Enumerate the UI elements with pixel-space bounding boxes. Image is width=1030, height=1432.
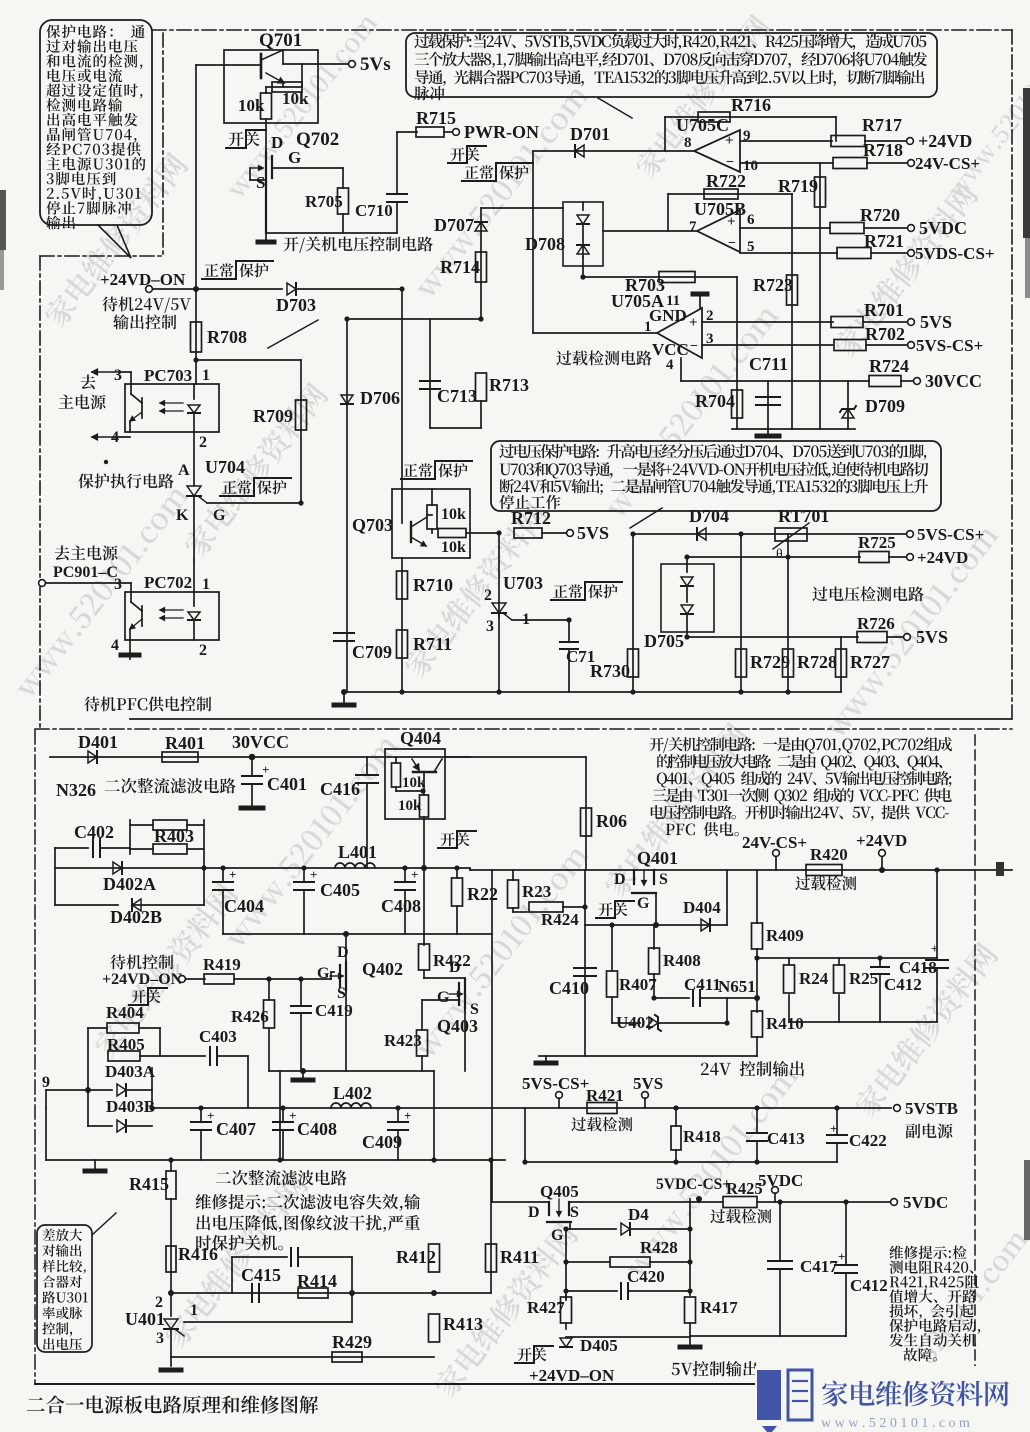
svg-text:7: 7: [689, 219, 697, 235]
svg-text:R722: R722: [706, 171, 746, 191]
svg-text:R729: R729: [750, 652, 790, 672]
svg-text:C402: C402: [74, 822, 114, 842]
svg-text:D: D: [614, 871, 626, 888]
svg-text:C420: C420: [627, 1267, 665, 1286]
svg-text:Q703: Q703: [352, 515, 393, 535]
svg-text:3: 3: [114, 367, 122, 384]
svg-text:−: −: [690, 339, 698, 354]
svg-text:+: +: [830, 1121, 837, 1136]
svg-text:S: S: [659, 871, 668, 888]
svg-text:+: +: [289, 1108, 296, 1123]
svg-text:3: 3: [486, 618, 494, 635]
svg-text:C710: C710: [355, 201, 393, 220]
svg-text:D709: D709: [865, 396, 905, 416]
svg-text:10k: 10k: [441, 506, 466, 523]
svg-text:5VS: 5VS: [916, 627, 948, 647]
svg-text:U401: U401: [125, 1309, 165, 1329]
svg-text:C401: C401: [267, 774, 307, 794]
svg-text:5VS: 5VS: [633, 1074, 663, 1093]
svg-text:R704: R704: [695, 391, 735, 411]
svg-text:R401: R401: [165, 733, 205, 753]
svg-text:L401: L401: [338, 842, 377, 862]
svg-text:+24VD: +24VD: [918, 131, 972, 151]
svg-text:D402B: D402B: [110, 907, 162, 927]
svg-text:R24: R24: [799, 969, 829, 988]
svg-text:5Vs: 5Vs: [360, 54, 391, 75]
svg-text:Q702: Q702: [296, 129, 339, 150]
svg-text:R710: R710: [413, 575, 453, 595]
svg-text:R716: R716: [731, 95, 771, 115]
svg-text:R416: R416: [178, 1244, 218, 1264]
svg-text:C409: C409: [362, 1132, 402, 1152]
svg-text:G: G: [213, 507, 226, 524]
svg-text:R728: R728: [797, 652, 837, 672]
svg-text:1: 1: [202, 576, 210, 593]
svg-text:C412: C412: [884, 975, 922, 994]
svg-text:R412: R412: [396, 1247, 436, 1267]
svg-text:C412: C412: [850, 1276, 888, 1295]
svg-text:G: G: [317, 965, 330, 982]
svg-text:4: 4: [666, 357, 674, 373]
svg-text:D: D: [449, 959, 461, 976]
svg-text:R23: R23: [522, 882, 551, 901]
svg-text:3: 3: [156, 1330, 164, 1347]
svg-text:G: G: [551, 1227, 564, 1244]
svg-text:+: +: [725, 133, 734, 149]
svg-text:30VCC: 30VCC: [925, 371, 982, 391]
svg-text:θ: θ: [776, 547, 783, 562]
svg-text:R419: R419: [203, 955, 241, 974]
svg-text:R411: R411: [500, 1247, 539, 1267]
svg-text:R408: R408: [663, 951, 701, 970]
svg-text:+: +: [207, 1108, 214, 1123]
svg-text:5VDS-CS+: 5VDS-CS+: [915, 244, 995, 263]
svg-text:D404: D404: [683, 898, 721, 917]
svg-text:R730: R730: [590, 661, 630, 681]
svg-text:R417: R417: [700, 1298, 738, 1317]
svg-text:1: 1: [202, 367, 210, 384]
svg-text:+24VD: +24VD: [917, 548, 968, 567]
svg-text:R714: R714: [440, 257, 480, 277]
svg-text:+: +: [838, 1249, 845, 1264]
svg-text:C404: C404: [224, 896, 264, 916]
svg-text:C418: C418: [899, 958, 937, 977]
svg-text:+: +: [411, 867, 418, 882]
svg-text:R718: R718: [863, 140, 903, 160]
svg-text:U704: U704: [205, 457, 245, 477]
svg-text:S: S: [570, 1204, 579, 1221]
svg-text:S: S: [337, 985, 346, 1002]
svg-text:D: D: [528, 1204, 540, 1221]
svg-text:G: G: [437, 989, 450, 1006]
svg-text:R22: R22: [467, 884, 498, 904]
svg-text:K: K: [176, 507, 189, 524]
svg-text:R702: R702: [865, 324, 905, 344]
svg-text:R711: R711: [413, 634, 452, 654]
svg-text:U705C: U705C: [676, 115, 729, 135]
svg-text:R717: R717: [862, 115, 902, 135]
svg-text:10k: 10k: [282, 89, 309, 108]
svg-text:5VS-CS+: 5VS-CS+: [916, 336, 983, 355]
svg-text:R723: R723: [753, 275, 793, 295]
svg-text:10k: 10k: [441, 539, 466, 556]
svg-text:R25: R25: [849, 969, 878, 988]
svg-text:GND: GND: [649, 306, 687, 325]
svg-text:D: D: [271, 133, 283, 152]
svg-text:5VDC: 5VDC: [903, 1193, 948, 1212]
svg-text:D4: D4: [628, 1205, 649, 1224]
svg-text:5VS-CS+: 5VS-CS+: [917, 525, 984, 544]
svg-text:D405: D405: [580, 1336, 618, 1355]
svg-text:+: +: [404, 1108, 411, 1123]
svg-text:+: +: [931, 941, 938, 956]
svg-text:−: −: [726, 155, 734, 170]
svg-text:R418: R418: [683, 1127, 721, 1146]
svg-text:U703: U703: [503, 573, 543, 593]
svg-text:R705: R705: [305, 192, 343, 211]
svg-text:R410: R410: [766, 1014, 804, 1033]
svg-text:1: 1: [190, 1302, 198, 1319]
svg-text:3: 3: [114, 576, 122, 593]
svg-text:D403B: D403B: [106, 1097, 155, 1116]
svg-text:PC703: PC703: [144, 366, 192, 385]
svg-text:5VSTB: 5VSTB: [905, 1099, 958, 1118]
svg-text:R427: R427: [527, 1298, 565, 1317]
svg-text:C403: C403: [199, 1027, 237, 1046]
svg-text:5VS: 5VS: [577, 523, 609, 543]
svg-text:C407: C407: [216, 1119, 256, 1139]
svg-text:D707: D707: [434, 215, 474, 235]
svg-text:4: 4: [111, 637, 119, 654]
svg-text:6: 6: [747, 212, 755, 228]
svg-text:C411: C411: [684, 975, 721, 994]
svg-text:Q701: Q701: [259, 30, 302, 51]
svg-text:PC901–C: PC901–C: [53, 564, 118, 581]
svg-text:5VDC: 5VDC: [919, 218, 967, 238]
svg-text:D706: D706: [360, 388, 400, 408]
svg-text:R726: R726: [857, 614, 895, 633]
svg-text:R403: R403: [154, 826, 194, 846]
svg-text:N651: N651: [718, 977, 756, 996]
svg-text:+: +: [229, 867, 236, 882]
svg-text:D703: D703: [276, 295, 316, 315]
svg-text:R413: R413: [443, 1314, 483, 1334]
svg-text:C422: C422: [849, 1131, 887, 1150]
svg-text:A: A: [178, 462, 190, 479]
svg-text:R713: R713: [489, 375, 529, 395]
svg-text:C709: C709: [352, 642, 392, 662]
svg-text:D401: D401: [78, 732, 118, 752]
svg-text:PWR-ON: PWR-ON: [464, 122, 539, 142]
svg-text:R423: R423: [384, 1031, 422, 1050]
svg-text:D708: D708: [525, 234, 565, 254]
svg-text:Q403: Q403: [437, 1016, 478, 1036]
svg-text:U402: U402: [616, 1013, 654, 1032]
svg-text:D402A: D402A: [103, 874, 156, 894]
svg-text:2: 2: [199, 434, 207, 451]
svg-text:+24VD–ON: +24VD–ON: [102, 971, 183, 988]
svg-text:C405: C405: [320, 880, 360, 900]
svg-text:R709: R709: [253, 406, 293, 426]
svg-text:30VCC: 30VCC: [232, 732, 289, 752]
svg-text:R06: R06: [596, 811, 627, 831]
svg-text:R415: R415: [129, 1174, 169, 1194]
svg-text:R708: R708: [207, 327, 247, 347]
svg-text:PC702: PC702: [144, 573, 192, 592]
svg-text:C416: C416: [320, 779, 360, 799]
svg-text:+: +: [727, 214, 736, 230]
svg-text:5VDC-CS+: 5VDC-CS+: [656, 1176, 731, 1193]
svg-text:−: −: [728, 236, 736, 251]
svg-text:D705: D705: [644, 631, 684, 651]
svg-text:R715: R715: [416, 108, 456, 128]
svg-text:+: +: [689, 315, 698, 331]
svg-text:w w w . 5 2 0 1 0 1 . c o m: w w w . 5 2 0 1 0 1 . c o m: [821, 1416, 970, 1431]
svg-text:R720: R720: [860, 205, 900, 225]
svg-text:Q402: Q402: [362, 959, 403, 979]
svg-text:R701: R701: [864, 300, 904, 320]
svg-text:S: S: [256, 173, 265, 192]
svg-text:C419: C419: [315, 1001, 353, 1020]
svg-text:G: G: [637, 895, 650, 912]
svg-text:D701: D701: [570, 124, 610, 144]
svg-text:2: 2: [199, 642, 207, 659]
svg-text:C711: C711: [749, 354, 788, 374]
svg-text:U705B: U705B: [694, 199, 746, 219]
svg-text:C410: C410: [549, 978, 589, 998]
svg-text:+: +: [310, 867, 317, 882]
svg-text:D403A: D403A: [105, 1062, 156, 1081]
svg-text:+24VD: +24VD: [856, 831, 907, 850]
svg-text:R424: R424: [541, 910, 579, 929]
svg-text:G: G: [288, 148, 301, 167]
svg-text:8: 8: [684, 135, 692, 151]
svg-text:Q404: Q404: [400, 728, 441, 748]
svg-text:R420: R420: [810, 845, 848, 864]
svg-text:RT701: RT701: [778, 506, 829, 526]
svg-text:Q401: Q401: [637, 848, 678, 868]
svg-text:N326: N326: [56, 780, 96, 800]
svg-text:24V-CS+: 24V-CS+: [915, 154, 980, 173]
svg-text:C415: C415: [241, 1265, 281, 1285]
svg-text:2: 2: [484, 587, 492, 604]
svg-text:5VS: 5VS: [920, 312, 952, 332]
svg-text:R421: R421: [586, 1086, 624, 1105]
svg-text:R414: R414: [297, 1271, 337, 1291]
svg-text:R725: R725: [858, 533, 896, 552]
svg-text:10k: 10k: [238, 96, 265, 115]
svg-text:24V-CS+: 24V-CS+: [742, 833, 807, 852]
svg-text:R724: R724: [869, 356, 909, 376]
svg-text:R409: R409: [766, 926, 804, 945]
svg-text:C413: C413: [767, 1129, 805, 1148]
svg-text:R719: R719: [778, 176, 818, 196]
svg-text:C417: C417: [800, 1257, 838, 1276]
svg-text:R721: R721: [864, 231, 904, 251]
svg-text:R407: R407: [619, 975, 657, 994]
svg-text:+24VD–ON: +24VD–ON: [529, 1366, 615, 1385]
svg-text:R404: R404: [106, 1003, 144, 1022]
svg-text:+24VD–ON: +24VD–ON: [100, 270, 186, 289]
svg-text:5VDC: 5VDC: [758, 1171, 803, 1190]
svg-text:L402: L402: [333, 1083, 372, 1103]
svg-text:C408: C408: [381, 896, 421, 916]
svg-text:10k: 10k: [398, 798, 422, 814]
svg-text:D704: D704: [689, 506, 729, 526]
svg-text:R429: R429: [332, 1332, 372, 1352]
svg-text:5VS-CS+: 5VS-CS+: [522, 1074, 589, 1093]
svg-text:Q405: Q405: [540, 1182, 579, 1201]
svg-text:9: 9: [42, 1074, 50, 1091]
svg-text:C713: C713: [437, 386, 477, 406]
svg-text:R727: R727: [850, 652, 890, 672]
svg-text:R428: R428: [640, 1238, 678, 1257]
svg-text:C408: C408: [297, 1119, 337, 1139]
svg-text:R426: R426: [231, 1007, 269, 1026]
